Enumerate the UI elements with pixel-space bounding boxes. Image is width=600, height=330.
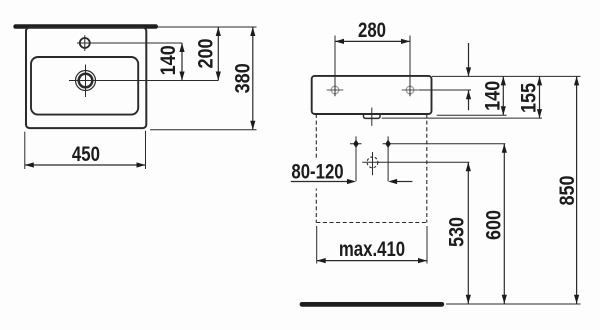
- basin inner bowl (top view): [31, 57, 138, 115]
- drain crosshair + extension to 530: [362, 152, 469, 175]
- dimension 155 line: [539, 76, 541, 118]
- dimension 140 (front view) line: [502, 76, 504, 115]
- bottom extension for 140 (front): [437, 114, 507, 116]
- dimension 80-120 right arrow: [397, 181, 412, 183]
- dimension 600 line: [503, 144, 505, 304]
- dimension 280 line: [335, 40, 410, 42]
- svg-text:380: 380: [231, 63, 255, 93]
- svg-text:80-120: 80-120: [291, 161, 343, 184]
- rim top extension line: [432, 75, 581, 77]
- fixing hole depth dim (unlabeled) upper arrow: [468, 43, 470, 76]
- drain trap notch (front view): [364, 114, 381, 118]
- svg-text:450: 450: [72, 143, 100, 166]
- floor extension line: [446, 303, 581, 305]
- svg-text:600: 600: [482, 210, 506, 240]
- bottom extension line for 380: [150, 129, 257, 131]
- extension lines for 450: [25, 131, 146, 169]
- extension lines for 280: [335, 36, 410, 97]
- dimension 140 (top view) line: [181, 43, 183, 81]
- dimension 530 line: [467, 162, 469, 303]
- svg-text:530: 530: [445, 217, 469, 247]
- supply pipe right marker: [383, 136, 506, 181]
- fixing hole level extension line: [419, 89, 471, 91]
- dimension 380 (top view) line: [252, 27, 254, 130]
- svg-text:850: 850: [556, 175, 580, 205]
- dimension 850 line: [576, 76, 578, 303]
- floor line (thick): [300, 302, 445, 307]
- max.410 extension lines: [317, 226, 427, 264]
- svg-text:280: 280: [358, 20, 386, 43]
- fixing hole depth dim (unlabeled) lower arrow: [468, 90, 470, 110]
- dimension max.410 line: [317, 260, 427, 262]
- drain crosshair: [69, 65, 103, 98]
- drain outer circle: [76, 71, 96, 91]
- wall extension line: [158, 26, 257, 28]
- tap hole circle: [80, 38, 90, 48]
- svg-text:140: 140: [157, 45, 181, 75]
- washbasin outer outline (top view): [26, 28, 146, 129]
- leader line from drain: [96, 80, 218, 82]
- washbasin outline (front view): [312, 76, 432, 114]
- tap hole crosshair: [77, 35, 93, 51]
- svg-text:200: 200: [194, 38, 218, 68]
- fixing hole right: [406, 86, 414, 94]
- max.410 dashed box bottom: [316, 222, 427, 224]
- svg-text:140: 140: [481, 81, 505, 111]
- leader line from tap hole: [91, 42, 182, 44]
- drain position dashed circle: [367, 157, 378, 168]
- drain inner ring: [79, 74, 93, 88]
- dimension 450 line: [25, 164, 146, 166]
- dimension 200 (top view) line: [217, 27, 219, 81]
- bottom extension for 155 (front): [382, 117, 542, 119]
- svg-text:155: 155: [517, 83, 541, 113]
- supply pipe left marker: [350, 136, 362, 181]
- max.410 dashed box left: [315, 114, 317, 223]
- svg-text:max.410: max.410: [339, 238, 405, 261]
- max.410 dashed box right: [426, 114, 428, 223]
- fixing hole left: [331, 86, 339, 94]
- wall line (top view): [13, 24, 158, 29]
- dimension 80-120 left arrow: [291, 181, 347, 183]
- notch centerline: [371, 108, 373, 126]
- label 80-120: [289, 159, 347, 189]
